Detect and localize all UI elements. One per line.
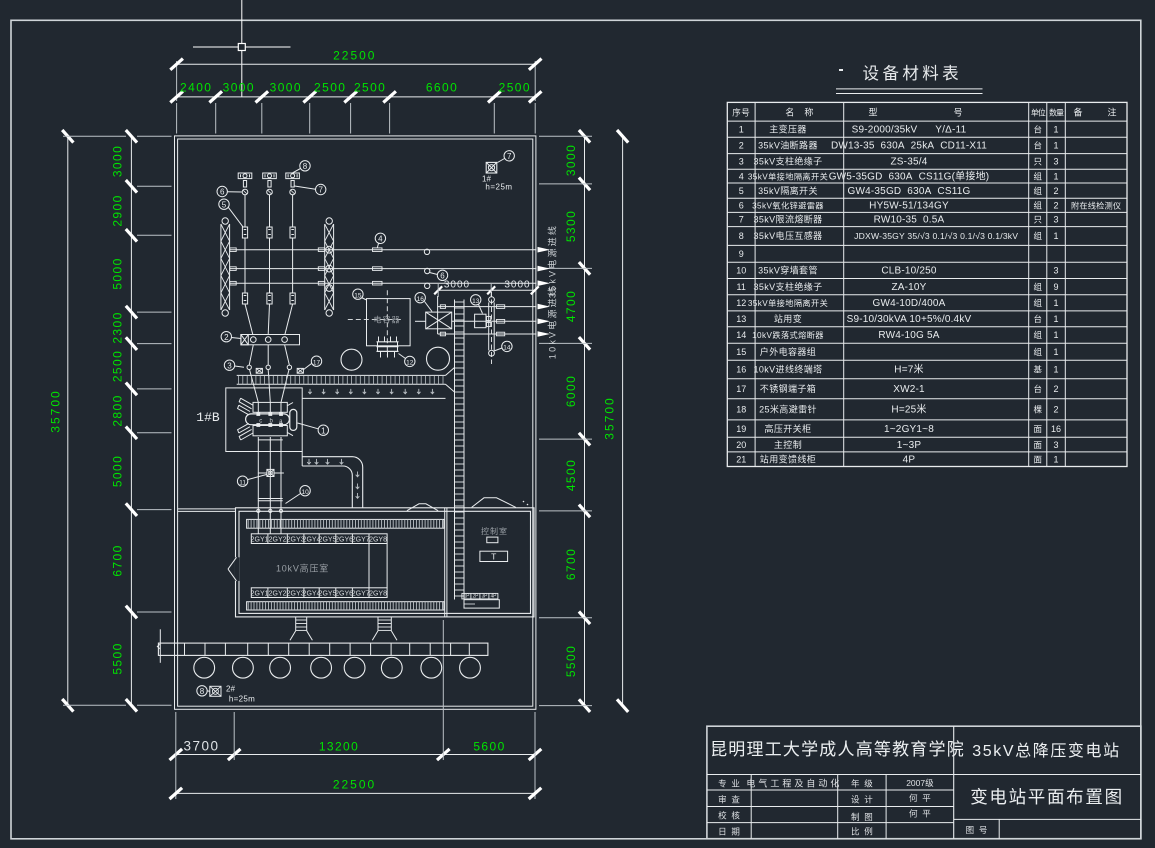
svg-text:6: 6 — [440, 272, 445, 281]
10kV feeder lines with arrows — [415, 296, 550, 337]
dimension 22500 top overall — [170, 49, 541, 102]
svg-text:5000: 5000 — [111, 257, 125, 289]
control room label — [481, 526, 508, 536]
lightning rod 2# h=25m — [197, 685, 255, 704]
svg-text:6: 6 — [739, 201, 744, 211]
svg-text:25米高避雷针: 25米高避雷针 — [759, 404, 817, 415]
lightning rod 1# h=25m — [482, 162, 513, 191]
post insulators item 3 — [247, 345, 292, 403]
svg-text:2GY8: 2GY8 — [369, 590, 387, 597]
bottom cable tray hatched — [247, 602, 444, 610]
svg-text:2GY5: 2GY5 — [319, 536, 337, 543]
svg-text:h=25m: h=25m — [229, 695, 255, 704]
svg-text:2: 2 — [1054, 384, 1059, 394]
svg-text:9: 9 — [739, 249, 744, 259]
svg-text:年 级: 年 级 — [851, 779, 873, 789]
svg-text:8: 8 — [739, 231, 744, 241]
svg-text:注: 注 — [1107, 107, 1116, 118]
svg-text:2GY2: 2GY2 — [269, 590, 287, 597]
svg-text:何 平: 何 平 — [909, 809, 931, 819]
svg-text:2GY7: 2GY7 — [352, 536, 370, 543]
svg-text:GW4-35GD 630A CS11G: GW4-35GD 630A CS11G — [848, 186, 971, 197]
svg-text:组: 组 — [1033, 231, 1042, 241]
title block frame — [707, 726, 1141, 839]
svg-text:2500: 2500 — [354, 81, 386, 95]
svg-text:组: 组 — [1033, 347, 1042, 357]
svg-text:2GY7: 2GY7 — [352, 590, 370, 597]
transformer LV leads down to building — [258, 437, 283, 508]
svg-text:3000: 3000 — [444, 280, 470, 291]
svg-text:16: 16 — [417, 296, 425, 303]
svg-text:15: 15 — [736, 347, 746, 357]
svg-text:3: 3 — [1054, 215, 1059, 225]
building internal wall — [445, 508, 447, 617]
svg-text:14: 14 — [736, 330, 746, 340]
svg-text:数量: 数量 — [1049, 108, 1064, 118]
svg-text:18: 18 — [736, 405, 746, 415]
svg-text:3700: 3700 — [183, 739, 219, 754]
room label 10kV gao ya shi — [276, 563, 329, 574]
svg-text:5300: 5300 — [564, 210, 578, 242]
conservator tank — [290, 409, 297, 430]
svg-text:2GY1: 2GY1 — [251, 590, 269, 597]
svg-text:台: 台 — [1033, 314, 1042, 324]
svg-text:9: 9 — [1054, 282, 1059, 292]
svg-text:GW5-35GD 630A CS11G(单接地): GW5-35GD 630A CS11G(单接地) — [829, 169, 990, 182]
label circle 7 lightning rod — [498, 151, 515, 163]
svg-text:1~2GY1~8: 1~2GY1~8 — [884, 424, 934, 435]
svg-text:面: 面 — [1033, 424, 1042, 434]
svg-text:1#B: 1#B — [196, 410, 220, 425]
large circle right — [427, 347, 450, 370]
svg-text:组: 组 — [1033, 171, 1042, 181]
svg-text:16: 16 — [736, 365, 746, 375]
equipment material table title — [836, 64, 983, 94]
svg-text:2GY6: 2GY6 — [335, 590, 353, 597]
svg-text:户外电容器组: 户外电容器组 — [760, 346, 816, 357]
svg-text:3: 3 — [227, 361, 232, 370]
dimension 22500 bottom overall — [170, 778, 542, 800]
svg-text:2P: 2P — [473, 594, 479, 600]
svg-text:17: 17 — [313, 359, 321, 366]
svg-text:5500: 5500 — [564, 645, 578, 677]
svg-text:电气工程及自动化: 电气工程及自动化 — [746, 778, 842, 789]
svg-text:2400: 2400 — [180, 81, 212, 95]
dimension left chain 3000 2900 5000 2300 2500 2800 5000 6700 5500 — [111, 130, 172, 712]
svg-text:13: 13 — [472, 298, 480, 305]
svg-text:型: 型 — [868, 108, 877, 118]
svg-text:3: 3 — [739, 157, 744, 167]
svg-text:2: 2 — [1054, 201, 1059, 211]
svg-text:何 平: 何 平 — [909, 793, 931, 803]
svg-text:1: 1 — [1054, 365, 1059, 375]
label circle 6 bus insulator — [430, 270, 448, 280]
AutoCAD crosshair cursor — [193, 0, 291, 97]
control room T table — [480, 551, 508, 561]
svg-text:H=7米: H=7米 — [894, 363, 923, 376]
capacitor rack item 12 — [377, 337, 399, 358]
svg-text:22500: 22500 — [333, 778, 376, 792]
svg-text:面: 面 — [1033, 454, 1042, 464]
svg-text:35kV单接地隔离开关: 35kV单接地隔离开关 — [748, 298, 828, 308]
terminal boxes item 17 — [256, 368, 303, 373]
svg-text:10: 10 — [301, 489, 309, 496]
svg-text:日 期: 日 期 — [718, 827, 740, 837]
label circle 3 — [224, 360, 244, 370]
svg-text:专 业: 专 业 — [718, 779, 740, 789]
svg-text:10: 10 — [736, 266, 746, 276]
label circle 8 bushings — [293, 161, 311, 173]
label circle 10 — [286, 486, 311, 504]
door on left wall — [228, 557, 239, 581]
incoming label 35kV dian yuan jin xian — [547, 224, 558, 298]
svg-text:1: 1 — [1054, 231, 1059, 241]
svg-text:2500: 2500 — [499, 81, 531, 95]
svg-text:6: 6 — [220, 188, 225, 197]
svg-text:组: 组 — [1033, 201, 1042, 211]
lattice tower right — [325, 218, 334, 316]
svg-text:2GY2: 2GY2 — [269, 536, 287, 543]
svg-text:35kV电压互感器: 35kV电压互感器 — [753, 230, 822, 241]
three horizontal 35kV bus lines — [230, 248, 537, 289]
ladder stub right below building — [372, 617, 397, 640]
10kV incoming pole items 13 14 — [475, 292, 495, 364]
title text 35kV substation — [972, 742, 1120, 760]
svg-text:昆明理工大学成人高等教育学院: 昆明理工大学成人高等教育学院 — [710, 740, 965, 759]
svg-text:4700: 4700 — [564, 290, 578, 322]
svg-text:1: 1 — [1054, 298, 1059, 308]
svg-text:主控制: 主控制 — [774, 439, 802, 450]
vertical cable ladder shaft — [455, 300, 465, 600]
main transformer 1#B body — [238, 398, 293, 440]
svg-text:2300: 2300 — [111, 311, 125, 343]
svg-text:组: 组 — [1033, 186, 1042, 196]
svg-text:5500: 5500 — [111, 642, 125, 674]
dimension bottom segments 3700 13200 5600 — [170, 620, 542, 799]
svg-text:高压开关柜: 高压开关柜 — [764, 423, 811, 434]
35kV bus lines exiting with arrows — [538, 247, 551, 286]
switchgear row bottom 2GY1-2GY8 — [251, 588, 387, 598]
label circle 14 — [494, 341, 512, 351]
svg-text:5000: 5000 — [111, 455, 125, 487]
svg-text:h=25m: h=25m — [485, 183, 512, 192]
svg-text:T: T — [491, 552, 496, 562]
svg-text:13: 13 — [736, 314, 746, 324]
svg-text:2GY6: 2GY6 — [335, 536, 353, 543]
svg-text:20: 20 — [736, 440, 746, 450]
svg-text:1: 1 — [321, 426, 326, 435]
svg-text:7: 7 — [739, 215, 744, 225]
svg-text:控制室: 控制室 — [481, 526, 508, 536]
capacitor room dashed box item 15 — [348, 290, 410, 355]
equipment table grid — [727, 102, 1127, 466]
svg-text:17: 17 — [736, 384, 746, 394]
svg-text:7: 7 — [318, 186, 323, 195]
svg-text:3000: 3000 — [270, 81, 302, 95]
svg-text:主变压器: 主变压器 — [769, 123, 807, 134]
svg-text:3000: 3000 — [223, 81, 255, 95]
grounding switch item 11 — [258, 469, 284, 476]
svg-text:7: 7 — [507, 152, 512, 161]
station service transformer item 16 — [426, 312, 452, 329]
svg-text:备: 备 — [1073, 107, 1082, 118]
svg-text:1: 1 — [1054, 171, 1059, 181]
title text drawing name — [970, 787, 1124, 807]
svg-text:1: 1 — [1054, 124, 1059, 134]
svg-text:1: 1 — [1054, 454, 1059, 464]
svg-text:1~3P: 1~3P — [897, 440, 922, 451]
svg-text:CLB-10/250: CLB-10/250 — [881, 266, 937, 277]
svg-text:35kV限流熔断器: 35kV限流熔断器 — [753, 214, 822, 225]
svg-text:附在线检测仪: 附在线检测仪 — [1071, 201, 1121, 211]
svg-text:6000: 6000 — [564, 375, 578, 407]
svg-text:5: 5 — [222, 200, 227, 209]
text 1#B — [196, 410, 220, 425]
svg-text:16: 16 — [1051, 424, 1061, 434]
label circle 4 bus connector — [375, 233, 385, 248]
svg-text:35kV油断路器: 35kV油断路器 — [758, 140, 818, 151]
label circle 11 — [237, 475, 266, 487]
svg-text:2GY5: 2GY5 — [319, 590, 337, 597]
svg-text:S9-10/30kVA 10+5%/0.4kV: S9-10/30kVA 10+5%/0.4kV — [847, 314, 972, 325]
svg-text:站用变: 站用变 — [774, 313, 802, 324]
svg-text:6600: 6600 — [426, 81, 458, 95]
svg-text:35kV支柱绝缘子: 35kV支柱绝缘子 — [753, 281, 822, 292]
svg-text:DW13-35 630A 25kA CD11-X11: DW13-35 630A 25kA CD11-X11 — [831, 141, 987, 152]
svg-text:XW2-1: XW2-1 — [893, 384, 925, 395]
label circle 12 — [399, 354, 415, 367]
svg-text:1: 1 — [1054, 347, 1059, 357]
substation fence (double rectangle) — [175, 136, 536, 709]
svg-text:2GY8: 2GY8 — [369, 536, 387, 543]
svg-text:35700: 35700 — [49, 389, 63, 432]
svg-text:6700: 6700 — [564, 548, 578, 580]
ladder stub left below building — [290, 617, 312, 640]
svg-text:2: 2 — [224, 333, 229, 342]
svg-text:8: 8 — [303, 162, 308, 171]
interior dimension 3000 3000 — [434, 280, 539, 298]
svg-text:单位: 单位 — [1031, 108, 1046, 118]
dimension 35700 left overall — [49, 130, 127, 712]
svg-text:4500: 4500 — [564, 459, 578, 491]
svg-text:4P: 4P — [903, 454, 916, 465]
upper cable trench hatched — [237, 368, 455, 393]
svg-text:只: 只 — [1033, 157, 1042, 167]
incoming LV lines into building — [257, 508, 283, 534]
svg-text:12: 12 — [736, 298, 746, 308]
svg-text:35kV隔离开关: 35kV隔离开关 — [758, 185, 818, 196]
svg-text:1: 1 — [1054, 141, 1059, 151]
label circle 15 — [353, 289, 367, 300]
svg-text:审 查: 审 查 — [718, 795, 740, 805]
svg-text:10kV高压室: 10kV高压室 — [276, 563, 329, 574]
svg-text:1: 1 — [1054, 330, 1059, 340]
svg-text:2#: 2# — [226, 685, 235, 694]
wall bushings row (item 8) — [238, 173, 299, 187]
svg-text:号: 号 — [953, 108, 962, 118]
svg-text:12: 12 — [406, 360, 414, 367]
label circle 6 insulator — [217, 186, 242, 196]
dimension row top segments 2400 3000 3000 2500 2500 6600 2500 — [170, 81, 541, 134]
dimension 35700 right overall — [603, 130, 629, 712]
svg-text:面: 面 — [1033, 440, 1042, 450]
svg-text:15: 15 — [354, 292, 362, 299]
incoming label 10kV dian yuan jin xian — [547, 285, 558, 359]
top cable tray hatched — [247, 519, 444, 528]
insulators under bushings (item 6) — [242, 189, 295, 195]
svg-text:3000: 3000 — [111, 145, 125, 177]
svg-text:组: 组 — [1033, 282, 1042, 292]
svg-text:5600: 5600 — [473, 740, 505, 754]
svg-text:3000: 3000 — [564, 144, 578, 176]
svg-text:设 计: 设 计 — [851, 795, 873, 805]
svg-text:棵: 棵 — [1033, 405, 1042, 415]
roof vent chevron right — [472, 498, 529, 508]
svg-text:1: 1 — [739, 124, 744, 134]
svg-text:21: 21 — [736, 454, 746, 464]
svg-text:S9-2000/35kV Y/Δ-11: S9-2000/35kV Y/Δ-11 — [852, 124, 967, 135]
svg-text:35kV支柱绝缘子: 35kV支柱绝缘子 — [753, 156, 822, 167]
svg-text:名 称: 名 称 — [785, 107, 813, 118]
svg-text:组: 组 — [1033, 298, 1042, 308]
svg-text:序号: 序号 — [732, 108, 750, 118]
svg-text:ZA-10Y: ZA-10Y — [891, 282, 926, 293]
svg-text:2500: 2500 — [111, 350, 125, 382]
transformer pit rectangle — [226, 388, 302, 452]
svg-text:2: 2 — [739, 141, 744, 151]
svg-text:3P: 3P — [482, 594, 488, 600]
svg-text:2007级: 2007级 — [906, 778, 934, 788]
eight cable pits circles — [194, 657, 481, 678]
svg-text:11: 11 — [239, 479, 246, 486]
svg-text:RW10-35 0.5A: RW10-35 0.5A — [874, 215, 945, 226]
label circle 7 right insulator — [295, 184, 326, 194]
svg-text:4: 4 — [378, 235, 383, 244]
phase drop wires with switches — [242, 195, 295, 335]
svg-text:不锈钢端子箱: 不锈钢端子箱 — [760, 383, 816, 394]
roof vent chevron left — [407, 504, 438, 511]
svg-text:8: 8 — [200, 687, 205, 696]
svg-text:比 例: 比 例 — [851, 827, 873, 837]
svg-text:2: 2 — [1054, 186, 1059, 196]
svg-text:2500: 2500 — [314, 81, 346, 95]
svg-text:3000: 3000 — [504, 280, 530, 291]
svg-text:变电站平面布置图: 变电站平面布置图 — [970, 787, 1124, 807]
svg-text:GW4-10D/400A: GW4-10D/400A — [873, 298, 946, 309]
cable band under upper trench with + markers — [302, 389, 445, 399]
label circle 5 disconnect switch — [219, 199, 243, 227]
ladder bottom duct — [464, 600, 499, 608]
svg-text:电容器: 电容器 — [374, 314, 401, 324]
left wall to fence connection — [178, 509, 236, 512]
table body rows — [736, 123, 1121, 465]
svg-text:35kV氧化锌避雷器: 35kV氧化锌避雷器 — [752, 201, 824, 211]
svg-text:校 核: 校 核 — [718, 811, 740, 821]
svg-text:3: 3 — [1054, 157, 1059, 167]
svg-text:13200: 13200 — [319, 740, 359, 754]
svg-text:14: 14 — [503, 345, 511, 352]
switchgear row top 2GY1-2GY8 — [251, 534, 387, 544]
svg-text:35kV穿墙套管: 35kV穿墙套管 — [758, 265, 818, 276]
large circle left — [341, 349, 362, 370]
panel row 1P-4P — [462, 593, 498, 599]
svg-text:10kV跌落式熔断器: 10kV跌落式熔断器 — [752, 330, 824, 340]
bus support beam item 2 — [241, 335, 300, 345]
dimension right chain 3000 5300 4700 6000 4500 6700 5500 — [539, 130, 592, 712]
label circle 17 — [304, 356, 322, 370]
svg-text:4P: 4P — [491, 594, 497, 600]
svg-text:19: 19 — [736, 424, 746, 434]
svg-text:台: 台 — [1033, 124, 1042, 134]
svg-text:1: 1 — [1054, 314, 1059, 324]
bottom cable duct bank — [157, 629, 488, 663]
label circle 16 — [415, 293, 432, 312]
label circle 2 — [221, 332, 241, 342]
svg-text:3: 3 — [1054, 440, 1059, 450]
10kV building outer walls — [236, 508, 535, 617]
svg-text:只: 只 — [1033, 215, 1042, 225]
svg-text:4: 4 — [739, 171, 744, 181]
svg-text:ZS-35/4: ZS-35/4 — [891, 157, 928, 168]
svg-text:2: 2 — [1054, 405, 1059, 415]
svg-text:台: 台 — [1033, 141, 1042, 151]
svg-text:5: 5 — [739, 186, 744, 196]
svg-text:台: 台 — [1033, 384, 1042, 394]
svg-text:6700: 6700 — [111, 544, 125, 576]
table header row — [732, 107, 1116, 118]
control room small box — [487, 537, 498, 543]
title text school name — [710, 740, 965, 759]
cable duct from pit to building (L shaped) — [302, 452, 363, 509]
svg-text:11: 11 — [737, 282, 746, 292]
svg-text:基: 基 — [1033, 365, 1042, 375]
svg-text:H=25米: H=25米 — [891, 403, 926, 416]
svg-text:2900: 2900 — [111, 194, 125, 226]
svg-text:站用变馈线柜: 站用变馈线柜 — [760, 453, 816, 464]
svg-text:组: 组 — [1033, 330, 1042, 340]
transformer HV through-lines — [258, 402, 281, 413]
svg-text:设备材料表: 设备材料表 — [863, 64, 963, 83]
svg-text:2800: 2800 — [111, 394, 125, 426]
svg-text:1P: 1P — [464, 594, 470, 600]
svg-text:35kV单接地隔离开关: 35kV单接地隔离开关 — [748, 171, 828, 181]
svg-text:35kV总降压变电站: 35kV总降压变电站 — [972, 742, 1120, 760]
svg-text:22500: 22500 — [333, 49, 376, 63]
svg-text:35700: 35700 — [603, 396, 617, 439]
svg-text:JDXW-35GY 35/√3 0.1/√3 0.1/√3: JDXW-35GY 35/√3 0.1/√3 0.1/√3 0.1/3kV — [854, 231, 1018, 241]
svg-text:10kV电源进线: 10kV电源进线 — [547, 285, 558, 359]
svg-text:制 图: 制 图 — [851, 812, 873, 822]
lattice tower left — [221, 218, 230, 316]
connection box right of switchgear rows — [369, 544, 387, 588]
svg-text:3: 3 — [1054, 266, 1059, 276]
svg-text:2GY1: 2GY1 — [251, 536, 269, 543]
svg-text:HY5W-51/134GY: HY5W-51/134GY — [869, 201, 949, 212]
label circle 13 — [471, 295, 483, 314]
label circle 1 transformer — [298, 423, 329, 435]
svg-text:RW4-10G 5A: RW4-10G 5A — [878, 330, 939, 341]
wall bushing plate item 10 — [258, 499, 283, 501]
title block small labels — [718, 778, 987, 837]
svg-text:图 号: 图 号 — [966, 825, 988, 835]
svg-text:10kV进线终端塔: 10kV进线终端塔 — [753, 364, 822, 375]
